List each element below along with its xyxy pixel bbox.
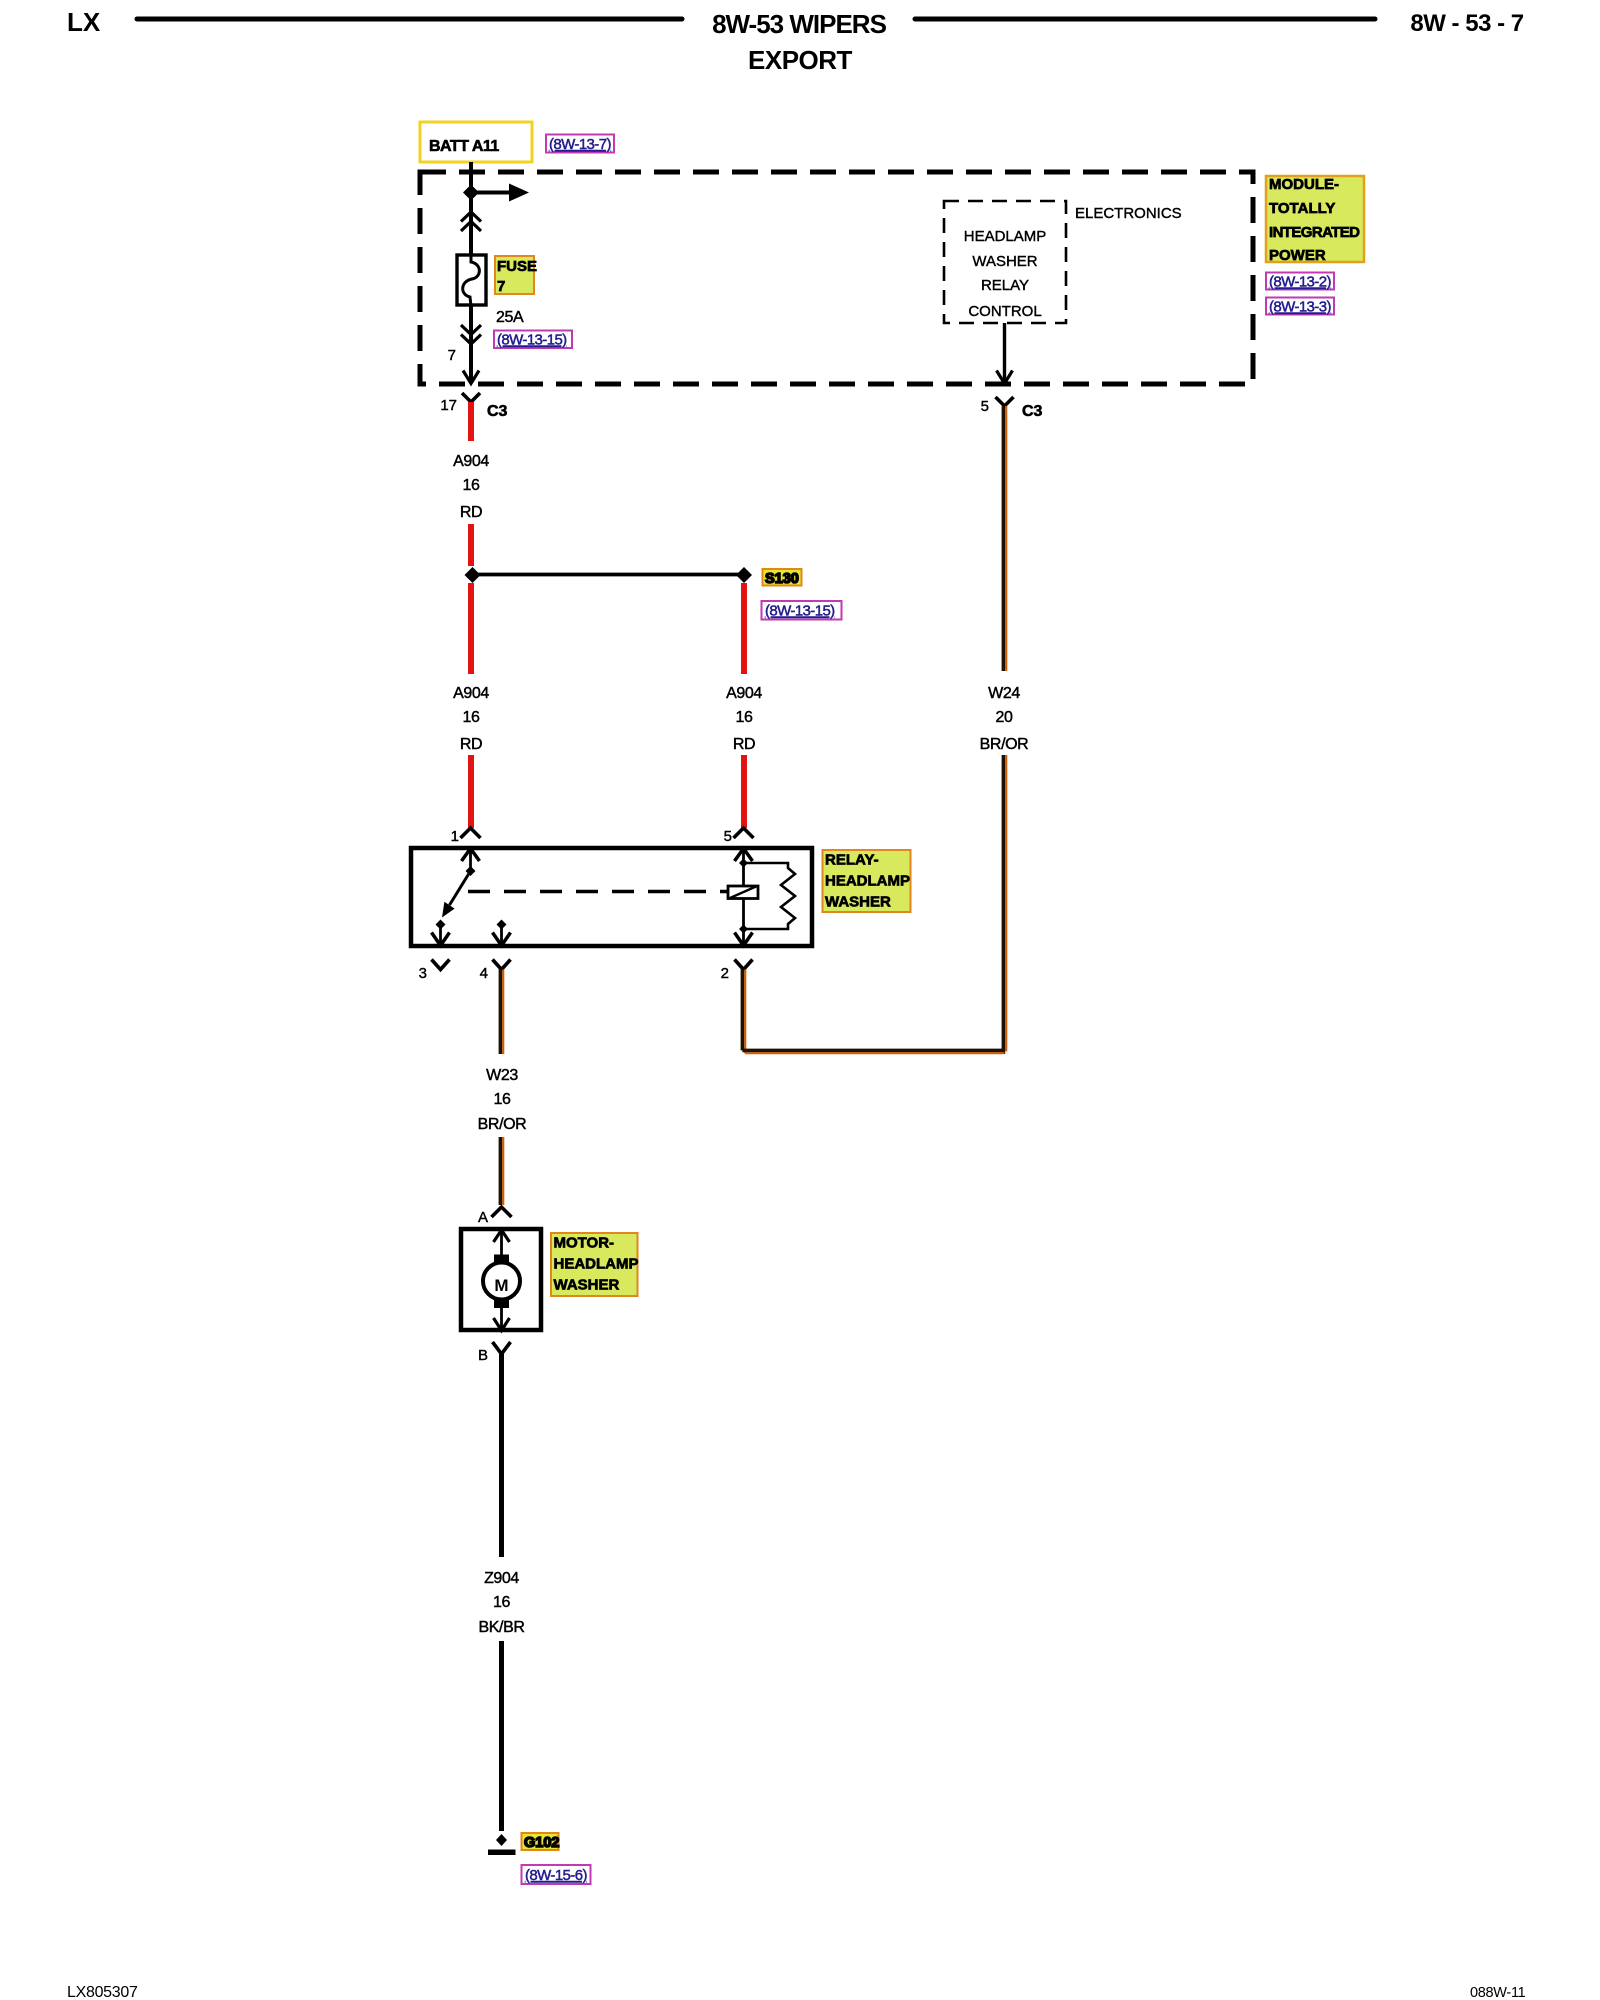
link 8W-13-2 [1266,273,1334,291]
svg-text:20: 20 [996,709,1013,726]
svg-text:C3: C3 [1022,403,1043,420]
svg-text:A904: A904 [726,685,762,702]
svg-text:5: 5 [981,398,989,415]
svg-text:RD: RD [460,504,482,521]
label MODULE-TOTALLY INTEGRATED POWER highlight [1266,176,1364,264]
svg-text:INTEGRATED: INTEGRATED [1269,224,1360,241]
svg-text:S130: S130 [765,571,799,587]
svg-text:POWER: POWER [1269,247,1326,264]
relay coil [728,886,758,944]
link 8W-13-15 upper [494,331,572,349]
svg-text:BATT A11: BATT A11 [429,138,499,155]
label A904 16 RD left [453,685,489,753]
wire A904 left lower segment [468,583,474,674]
svg-text:RELAY: RELAY [981,277,1029,294]
wire W24 lower [1003,755,1006,1054]
svg-text:C3: C3 [487,403,508,420]
switch blade [442,871,471,918]
svg-text:WASHER: WASHER [825,894,891,911]
connector relay pin 5 [724,828,754,845]
svg-text:7: 7 [448,347,456,364]
svg-text:16: 16 [463,477,480,494]
svg-text:WASHER: WASHER [554,1277,620,1294]
node battery junction [463,185,479,201]
label MOTOR-HEADLAMP WASHER highlight [551,1233,639,1296]
svg-text:FUSE: FUSE [497,258,537,275]
arrow into TIPM edge left [463,371,479,384]
label W23 16 BR/OR [478,1067,527,1133]
wire pin2 to W24 [742,970,1004,1054]
svg-text:8W - 53 - 7: 8W - 53 - 7 [1410,10,1523,37]
wire Z904 lower [499,1641,504,1831]
switch pin 1 arrow [462,849,480,877]
svg-text:LX805307: LX805307 [67,1984,138,2000]
link 8W-13-15 lower [762,601,842,620]
svg-text:HEADLAMP: HEADLAMP [825,873,910,890]
wire W23 upper [500,970,503,1055]
relay pin 2 arrow [735,933,753,946]
motor internals [483,1230,520,1331]
svg-text:1: 1 [451,828,459,845]
label G102 highlight [522,1833,560,1851]
svg-text:M: M [494,1276,508,1295]
pin 4 contact [493,920,511,946]
svg-text:B: B [478,1347,488,1364]
svg-text:BR/OR: BR/OR [478,1116,527,1133]
connector BATT A11 [420,122,532,162]
connector relay pin 1 [451,828,481,845]
connector pin 4 [480,960,511,983]
svg-text:7: 7 [497,278,505,295]
splice S130 [465,567,753,583]
connector pin 3 [419,960,450,983]
wire A904 right to relay [741,755,747,828]
wire Z904 upper [499,1354,504,1557]
connector C3 pin 17 [440,393,507,420]
relay box [411,848,812,946]
svg-text:G102: G102 [524,1835,559,1851]
label W24 20 BR/OR [980,685,1029,753]
svg-text:MODULE-: MODULE- [1269,176,1339,193]
module TIPM dashed box [420,172,1253,384]
wire A904 to splice [468,524,474,566]
svg-text:(8W-15-6): (8W-15-6) [525,1867,587,1884]
actuator dashed line [468,890,727,893]
inline connector marks down [461,325,481,344]
wire relay control output [1003,323,1006,381]
ground G102 symbol [488,1834,516,1855]
svg-text:WASHER: WASHER [972,253,1037,270]
label RELAY-HEADLAMP WASHER highlight [823,850,911,912]
svg-text:ELECTRONICS: ELECTRONICS [1075,205,1182,222]
svg-text:TOTALLY: TOTALLY [1269,200,1335,217]
coil shunt resistor [744,863,796,929]
svg-text:LX: LX [67,7,101,37]
wire A904 upper segment [468,402,474,441]
svg-text:16: 16 [736,709,753,726]
svg-text:17: 17 [440,397,457,414]
svg-text:088W-11: 088W-11 [1470,1985,1526,2000]
relay coil pin 5 arrow [735,849,753,887]
svg-text:A: A [478,1209,488,1226]
svg-text:A904: A904 [453,453,489,470]
svg-text:RD: RD [460,736,482,753]
svg-text:8W-53 WIPERS: 8W-53 WIPERS [712,9,887,39]
connector motor pin A [478,1207,512,1226]
fuse F7 [457,254,486,306]
svg-text:CONTROL: CONTROL [968,303,1041,320]
header [67,7,1524,75]
svg-text:RELAY-: RELAY- [825,852,879,869]
svg-text:Z904: Z904 [484,1570,519,1587]
arrow into TIPM edge right [997,371,1013,384]
svg-text:4: 4 [480,965,488,982]
link 8W-13-3 [1266,298,1334,316]
connector C3 pin 5 [981,397,1043,420]
link 8W-13-7 [546,135,614,154]
ECU headlamp washer relay control dashed box [944,201,1066,323]
wire fuse to C3 [469,305,473,381]
label A904 16 RD right [726,685,762,753]
link 8W-15-6 [522,1865,591,1884]
wire W24 upper [1003,406,1006,671]
svg-text:MOTOR-: MOTOR- [554,1235,615,1252]
svg-text:(8W-13-2): (8W-13-2) [1269,274,1331,291]
connector pin 2 [721,960,753,983]
svg-text:HEADLAMP: HEADLAMP [964,228,1047,245]
switch pin 3 contact [432,920,450,946]
svg-text:A904: A904 [453,685,489,702]
wire feed arrow [471,184,529,202]
svg-text:BK/BR: BK/BR [478,1619,524,1636]
svg-text:3: 3 [419,965,427,982]
wire W23 lower [500,1137,503,1205]
svg-text:(8W-13-15): (8W-13-15) [497,332,567,349]
label FUSE 7 highlight [495,256,537,295]
svg-text:W24: W24 [988,685,1020,702]
svg-text:HEADLAMP: HEADLAMP [554,1256,639,1273]
svg-text:(8W-13-3): (8W-13-3) [1269,299,1331,316]
svg-text:EXPORT: EXPORT [748,45,853,75]
svg-text:RD: RD [733,736,755,753]
wire BATT to fuse [469,162,473,254]
label S130 highlight [763,569,802,587]
connector motor pin B [478,1342,511,1364]
svg-text:(8W-13-15): (8W-13-15) [765,603,835,620]
svg-text:5: 5 [724,828,732,845]
svg-text:25A: 25A [496,309,524,326]
wire A904 left to relay [468,755,474,828]
svg-text:BR/OR: BR/OR [980,736,1029,753]
svg-text:(8W-13-7): (8W-13-7) [549,136,611,153]
svg-text:W23: W23 [486,1067,518,1084]
footer [67,1984,1526,2000]
svg-text:2: 2 [721,965,729,982]
svg-text:16: 16 [494,1091,511,1108]
label A904 16 RD upper [453,453,489,521]
label Z904 16 BK/BR [478,1570,524,1636]
wire A904 right lower segment [741,583,747,674]
inline connector marks up [461,212,481,231]
svg-text:16: 16 [493,1594,510,1611]
svg-text:16: 16 [463,709,480,726]
motor box [461,1229,541,1330]
